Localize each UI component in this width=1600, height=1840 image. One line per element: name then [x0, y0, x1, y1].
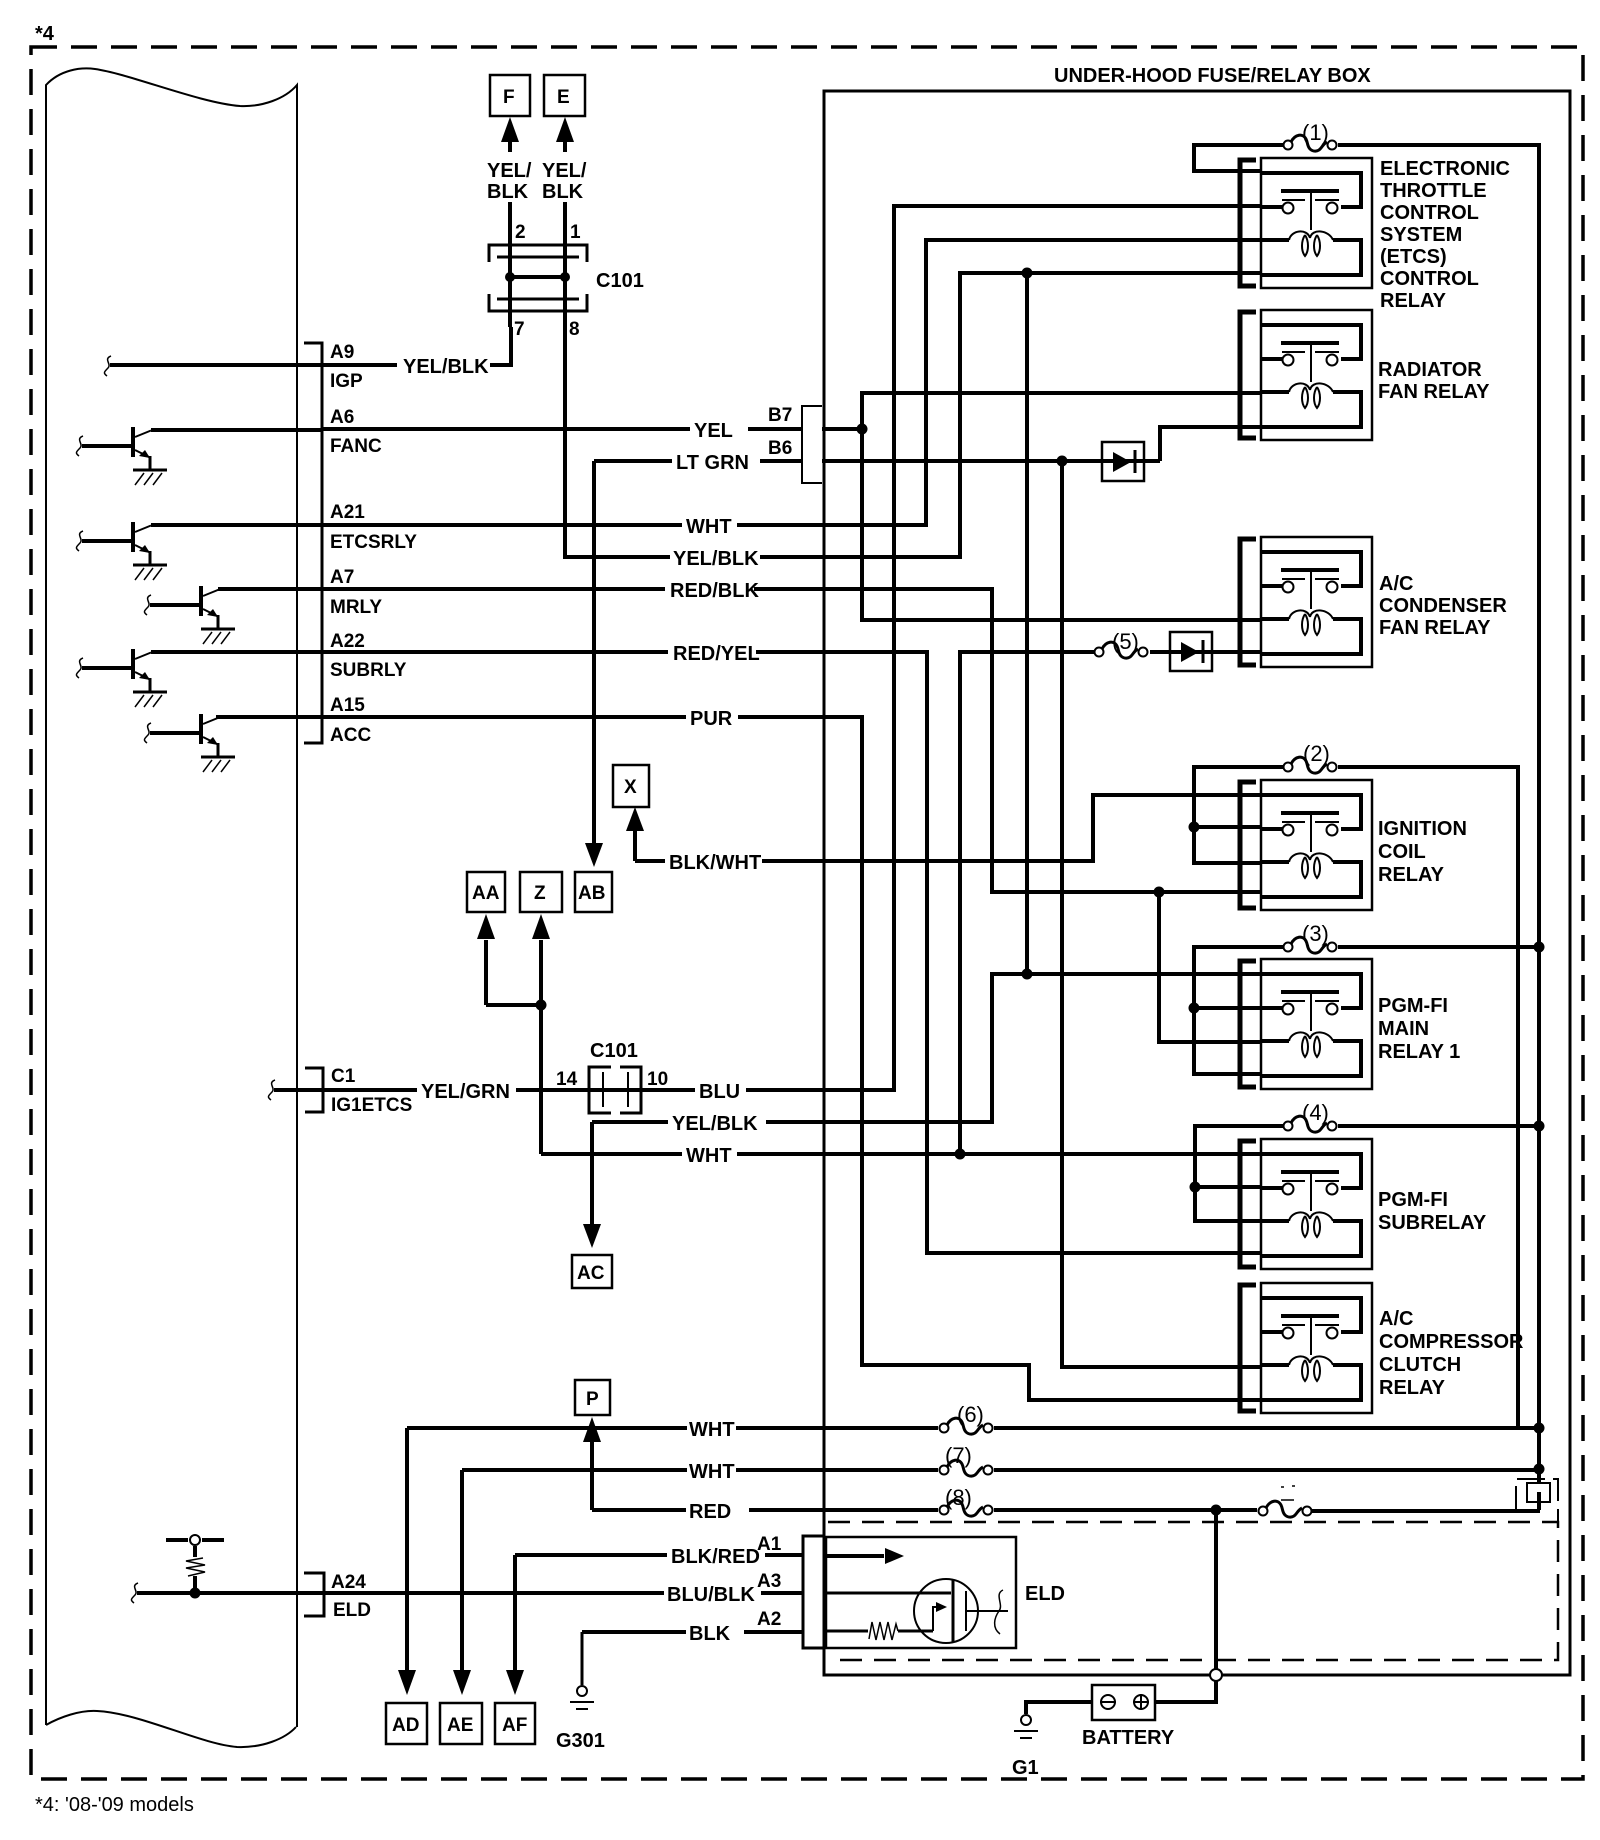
- svg-text:BLU/BLK: BLU/BLK: [667, 1584, 755, 1606]
- svg-text:CONTROL: CONTROL: [1380, 268, 1479, 290]
- fuse F4: [1284, 1116, 1337, 1132]
- wire C1 IG1ETCS YEL/GRN to C101: [274, 1088, 589, 1092]
- wire A3 gate line inside ELD: [824, 1592, 951, 1595]
- svg-text:(2): (2): [1303, 741, 1330, 766]
- connector box E: [544, 75, 585, 116]
- svg-text:MAIN: MAIN: [1378, 1018, 1429, 1040]
- svg-text:BLK: BLK: [689, 1623, 731, 1645]
- connector bracket A1 A3 A2: [803, 1536, 824, 1648]
- svg-text:A3: A3: [757, 1571, 781, 1592]
- svg-text:ELECTRONIC: ELECTRONIC: [1380, 158, 1510, 180]
- connector bracket relay U5: [1240, 961, 1256, 1087]
- svg-text:WHT: WHT: [689, 1419, 735, 1441]
- wire A6 FANC YEL to junction: [151, 429, 862, 430]
- svg-text:SUBRELAY: SUBRELAY: [1378, 1212, 1487, 1234]
- fusible link assembly right: [1537, 1469, 1541, 1510]
- connector bracket relay U3: [1240, 539, 1256, 665]
- squiggle Q1 base: [76, 436, 83, 456]
- svg-text:A7: A7: [330, 567, 354, 588]
- svg-text:AA: AA: [472, 883, 500, 904]
- arrow down to AB connector from LT GRN: [592, 461, 596, 844]
- transistor Q1 FANC driver: [82, 427, 151, 470]
- connector box P: [575, 1380, 610, 1415]
- relay U5 PGM-FI main relay 1 box: [1261, 959, 1372, 1089]
- junction relay U5 top at bus 1027: [1022, 969, 1033, 980]
- svg-text:A24: A24: [331, 1572, 366, 1593]
- wire fuse F1 output to right bus: [1338, 143, 1539, 147]
- svg-text:WHT: WHT: [686, 1145, 732, 1167]
- arrow up to E connector: [563, 130, 567, 152]
- arrow down to AE connector: [460, 1470, 464, 1671]
- ground G301: [570, 1686, 594, 1709]
- ground Q5: [201, 757, 235, 772]
- svg-text:(3): (3): [1302, 921, 1329, 946]
- svg-text:A9: A9: [330, 342, 354, 363]
- svg-text:BLK/WHT: BLK/WHT: [669, 852, 761, 874]
- wire fuse F4 output to right bus: [1338, 1124, 1539, 1128]
- svg-text:ELD: ELD: [333, 1600, 371, 1621]
- svg-text:RED/YEL: RED/YEL: [673, 643, 760, 665]
- svg-text:AF: AF: [502, 1715, 527, 1736]
- svg-text:10: 10: [647, 1069, 668, 1090]
- ECM/PCM torn box (left): [46, 68, 297, 1747]
- svg-text:BLK/RED: BLK/RED: [671, 1546, 760, 1568]
- svg-text:BLK: BLK: [542, 181, 584, 203]
- connector C101 lower: [589, 1067, 641, 1113]
- svg-text:CONDENSER: CONDENSER: [1379, 595, 1507, 617]
- squiggle ELD drain continuation: [995, 1590, 1003, 1634]
- svg-text:C101: C101: [596, 270, 644, 292]
- wire WHT fuse F7 from AE: [462, 1468, 1539, 1472]
- svg-text:C101: C101: [590, 1040, 638, 1062]
- svg-text:CONTROL: CONTROL: [1380, 202, 1479, 224]
- fuse F5: [1095, 642, 1148, 658]
- junction LT GRN at bus 1062: [1057, 456, 1068, 467]
- svg-text:A15: A15: [330, 695, 365, 716]
- fuse F8: [940, 1500, 993, 1516]
- svg-text:BLK: BLK: [487, 181, 529, 203]
- wire BLK A2 from G301: [582, 1630, 803, 1634]
- wire YEL/BLK pin8 down to YEL/BLK net relay U1 bottom: [565, 273, 1261, 557]
- ECM pin bracket A24: [304, 1573, 324, 1616]
- wire fuse F2 output to bus 1518: [1338, 767, 1518, 1428]
- connector bracket B7 B6: [802, 406, 822, 483]
- MOSFET Q6 inside ELD: [914, 1579, 978, 1643]
- squiggle A24 wire end: [131, 1583, 138, 1603]
- transistor Q4 SUBRLY driver: [82, 649, 151, 692]
- svg-text:A21: A21: [330, 502, 365, 523]
- svg-text:PGM-FI: PGM-FI: [1378, 995, 1448, 1017]
- wire A2 inside ELD with resistor R2: [824, 1630, 933, 1633]
- wire RED fuse F8 from P: [592, 1510, 1540, 1511]
- svg-text:PUR: PUR: [690, 708, 733, 730]
- svg-text:RADIATOR: RADIATOR: [1378, 359, 1482, 381]
- wire battery drop through box edge: [1155, 1510, 1216, 1702]
- junction WHT7 right bus: [1534, 1464, 1545, 1475]
- svg-text:YEL/GRN: YEL/GRN: [421, 1081, 510, 1103]
- svg-text:UNDER-HOOD FUSE/RELAY BOX: UNDER-HOOD FUSE/RELAY BOX: [1054, 65, 1371, 87]
- connector box AB: [575, 872, 612, 912]
- svg-text:C1: C1: [331, 1066, 356, 1087]
- svg-text:ETCSRLY: ETCSRLY: [330, 532, 417, 553]
- arrow up to Z connector and down to WHT corner: [539, 940, 543, 1154]
- connector box AE: [440, 1703, 482, 1744]
- fuse F3: [1284, 937, 1337, 953]
- relay U4 ignition coil relay box: [1261, 780, 1372, 910]
- connector box AA: [467, 872, 505, 912]
- wire A21 ETCSRLY WHT to relay U1 coil: [151, 240, 1261, 525]
- transistor Q5 ACC driver: [150, 714, 219, 757]
- wire BLK/WHT to X arrow and relay U4 top: [635, 795, 1261, 861]
- transistor Q2 ETCSRLY driver: [82, 522, 151, 565]
- svg-text:Z: Z: [534, 883, 546, 904]
- wire bus 1159 to relay U5 coil: [1159, 892, 1261, 1042]
- fuse F6: [940, 1418, 993, 1434]
- wire bus 862 YEL net to relay U2 coil and U3 coil: [862, 393, 1261, 620]
- wire fuse F4 feed down to relay U6 coil: [1195, 1126, 1283, 1221]
- connector bracket relay U7: [1240, 1285, 1256, 1411]
- svg-text:COIL: COIL: [1378, 841, 1426, 863]
- svg-text:RELAY: RELAY: [1380, 290, 1447, 312]
- svg-text:G301: G301: [556, 1730, 605, 1752]
- svg-text:FAN RELAY: FAN RELAY: [1379, 617, 1491, 639]
- svg-text:ACC: ACC: [330, 725, 371, 746]
- wire YEL/BLK lower to relay U5 top: [592, 974, 1261, 1122]
- wire battery to G1 ground: [1026, 1702, 1092, 1714]
- svg-text:A/C: A/C: [1379, 1308, 1413, 1330]
- arrow down to AD connector: [405, 1428, 409, 1671]
- svg-text:(5): (5): [1112, 629, 1139, 654]
- svg-text:IGP: IGP: [330, 371, 363, 392]
- svg-text:RED/BLK: RED/BLK: [670, 580, 759, 602]
- wire BLU/BLK A3 ELD from ECM: [137, 1591, 803, 1595]
- svg-text:*4: *4: [35, 23, 55, 45]
- svg-text:LT GRN: LT GRN: [676, 452, 749, 474]
- svg-text:A6: A6: [330, 407, 354, 428]
- svg-text:A22: A22: [330, 631, 365, 652]
- svg-text:AE: AE: [447, 1715, 473, 1736]
- connector box AC: [572, 1255, 612, 1288]
- relay U2 radiator fan relay box: [1261, 310, 1372, 440]
- fuse F2: [1284, 757, 1337, 773]
- svg-text:A2: A2: [757, 1609, 781, 1630]
- junction YEL/BLK at bus 1027: [1022, 268, 1033, 279]
- wire fuse F5 to diode D2 to relay U3 bottom: [1150, 650, 1261, 654]
- wire fuse F5 feed from WHT net bus 960: [960, 652, 1094, 1154]
- transistor Q3 MRLY driver: [150, 586, 219, 629]
- wire fuse F3 output to right bus: [1338, 945, 1539, 949]
- connector box X: [613, 765, 649, 807]
- wire C101 pin2 to pin7 vertical F branch: [508, 202, 512, 327]
- junction relay U4 contact: [1189, 822, 1200, 833]
- svg-text:8: 8: [569, 319, 580, 340]
- ECM pin bracket C1: [305, 1068, 323, 1112]
- battery BAT1: [1092, 1685, 1155, 1720]
- svg-text:7: 7: [514, 319, 525, 340]
- svg-text:A1: A1: [757, 1534, 782, 1555]
- svg-text:RELAY 1: RELAY 1: [1378, 1041, 1460, 1063]
- connector C101 upper: [489, 245, 587, 311]
- svg-text:PGM-FI: PGM-FI: [1378, 1189, 1448, 1211]
- wire relay U5 contact stub: [1194, 1006, 1261, 1010]
- inner dashed sub-box around ELD: [828, 1522, 1558, 1660]
- svg-text:YEL/: YEL/: [542, 160, 587, 182]
- svg-text:YEL/BLK: YEL/BLK: [403, 356, 489, 378]
- squiggle Q5 base: [144, 723, 151, 743]
- squiggle C1 wire end: [268, 1080, 275, 1100]
- svg-text:YEL/BLK: YEL/BLK: [672, 1113, 758, 1135]
- ground Q2: [133, 565, 167, 580]
- relay U3 A/C condenser fan relay box: [1261, 537, 1372, 667]
- svg-text:SUBRLY: SUBRLY: [330, 660, 407, 681]
- ground G1: [1014, 1715, 1038, 1738]
- ground Q4: [133, 692, 167, 707]
- resistor R1 pull-up on ELD line: [193, 1546, 197, 1590]
- wire C101 pin1 to pin8 vertical E branch: [563, 202, 567, 277]
- connector box Z: [520, 872, 562, 912]
- arrow up to AA connector: [484, 940, 488, 1005]
- connector box AD: [386, 1703, 427, 1744]
- open junction on box bottom edge: [1210, 1669, 1222, 1681]
- svg-text:SYSTEM: SYSTEM: [1380, 224, 1462, 246]
- svg-text:WHT: WHT: [689, 1461, 735, 1483]
- wire WHT fuse F6 from AD: [407, 1426, 1539, 1430]
- ELD assembly box: [826, 1537, 1016, 1648]
- svg-text:B6: B6: [768, 438, 792, 459]
- svg-text:RED: RED: [689, 1501, 731, 1523]
- squiggle A9 wire end: [104, 356, 111, 376]
- ground Q3: [201, 629, 235, 644]
- svg-text:(ETCS): (ETCS): [1380, 246, 1447, 268]
- svg-text:14: 14: [556, 1069, 578, 1090]
- resistor R2 inside ELD: [869, 1622, 898, 1640]
- junction ignition relay bottom at bus 1159: [1154, 887, 1165, 898]
- svg-text:E: E: [557, 87, 570, 108]
- junction fuse F4 right bus: [1534, 1121, 1545, 1132]
- wire AA Z tie: [486, 1003, 541, 1007]
- connector box F: [490, 75, 530, 116]
- svg-text:YEL/BLK: YEL/BLK: [673, 548, 759, 570]
- svg-text:BATTERY: BATTERY: [1082, 1727, 1175, 1749]
- arrow down to AF connector: [513, 1555, 517, 1671]
- junction C101 pin7: [505, 272, 515, 282]
- arrow up to F connector: [508, 130, 512, 152]
- svg-text:*4: '08-'09 models: *4: '08-'09 models: [35, 1794, 194, 1816]
- relay U1 ETCS control relay box: [1261, 158, 1372, 288]
- wire relay U4 contact stub: [1194, 825, 1261, 829]
- svg-text:CLUTCH: CLUTCH: [1379, 1354, 1461, 1376]
- wire bus 1062 LT GRN net to relay U7 coil: [1062, 461, 1261, 1367]
- svg-text:IG1ETCS: IG1ETCS: [331, 1095, 412, 1116]
- svg-text:AB: AB: [578, 883, 605, 904]
- svg-text:FANC: FANC: [330, 436, 382, 457]
- relay U6 PGM-FI subrelay box: [1261, 1139, 1372, 1269]
- ECM pin bracket A9-A15: [304, 343, 322, 743]
- wire C101 internal tie: [510, 275, 565, 279]
- svg-text:X: X: [624, 777, 637, 798]
- diode D1: [1102, 442, 1144, 481]
- svg-text:G1: G1: [1012, 1757, 1039, 1779]
- junction ELD resistor: [190, 1588, 201, 1599]
- wire fuse F2 feed down to relay U4 coil: [1194, 767, 1283, 863]
- fuse F7: [940, 1460, 993, 1476]
- svg-text:YEL: YEL: [694, 420, 733, 442]
- svg-text:(6): (6): [957, 1402, 984, 1427]
- svg-text:B7: B7: [768, 405, 792, 426]
- junction relay U6 contact: [1190, 1182, 1201, 1193]
- fuse F1: [1284, 135, 1337, 151]
- svg-text:1: 1: [570, 222, 581, 243]
- arrow up to P connector from RED: [590, 1442, 594, 1510]
- svg-text:COMPRESSOR: COMPRESSOR: [1379, 1331, 1524, 1353]
- wire relay U6 contact stub: [1195, 1185, 1261, 1189]
- wire G301 drop: [581, 1632, 584, 1685]
- squiggle Q2 base: [76, 531, 83, 551]
- svg-text:ELD: ELD: [1025, 1583, 1065, 1605]
- svg-text:(4): (4): [1302, 1100, 1329, 1125]
- connector bracket relay U1: [1240, 160, 1256, 286]
- svg-text:RELAY: RELAY: [1378, 864, 1445, 886]
- connector box AF: [495, 1703, 535, 1744]
- svg-text:WHT: WHT: [686, 516, 732, 538]
- wire fuse F3 feed down to relay U5 bottom: [1194, 947, 1283, 1074]
- arrow up to X connector: [633, 826, 637, 861]
- wire bus 1027 MRLY net: [1025, 273, 1029, 974]
- connector bracket relay U2: [1240, 312, 1256, 438]
- connector bracket relay U4: [1240, 782, 1256, 908]
- svg-text:MRLY: MRLY: [330, 597, 382, 618]
- junction WHT at bus 960: [955, 1149, 966, 1160]
- svg-text:FAN RELAY: FAN RELAY: [1378, 381, 1490, 403]
- arrow down to AC connector from YEL/BLK: [590, 1122, 594, 1225]
- svg-text:(1): (1): [1302, 120, 1329, 145]
- svg-text:THROTTLE: THROTTLE: [1380, 180, 1487, 202]
- wire LT GRN B6 to diode D1 and AB arrow: [594, 459, 1160, 463]
- junction WHT6 right bus: [1534, 1423, 1545, 1434]
- junction AA Z: [536, 1000, 547, 1011]
- ground Q1: [133, 470, 167, 485]
- fuse F9 unlabeled on RED wire: [1259, 1501, 1312, 1517]
- svg-text:YEL/: YEL/: [487, 160, 532, 182]
- wire A7 MRLY RED/BLK to bus 992: [218, 589, 1261, 892]
- wire BLK/RED A1 from AF corner: [515, 1553, 803, 1557]
- junction YEL B7 at bus 862: [857, 424, 868, 435]
- wire fuse F1 feed from relay U1 top: [1194, 145, 1283, 171]
- svg-text:P: P: [586, 1389, 599, 1410]
- wire A1 arrow inside ELD: [824, 1554, 884, 1558]
- svg-text:AC: AC: [577, 1263, 605, 1284]
- wire diode D1 output to relay U2 bottom: [1160, 427, 1261, 461]
- svg-text:AD: AD: [392, 1715, 419, 1736]
- junction C101 pin8: [560, 272, 570, 282]
- squiggle Q4 base: [76, 658, 83, 678]
- wire BLU from C101 to relay U1 contact: [641, 206, 1261, 1090]
- junction relay U5 contact: [1189, 1003, 1200, 1014]
- svg-text:BLU: BLU: [699, 1081, 740, 1103]
- junction fuse F3 right bus: [1534, 942, 1545, 953]
- wire A9 IGP YEL/BLK from ECM to C101 pin 7: [110, 327, 511, 365]
- squiggle Q3 base: [144, 595, 151, 615]
- svg-text:F: F: [503, 87, 515, 108]
- connector bracket relay U6: [1240, 1141, 1256, 1267]
- svg-text:RELAY: RELAY: [1379, 1377, 1446, 1399]
- under-hood fuse/relay box (solid): [824, 91, 1570, 1675]
- svg-text:(8): (8): [945, 1485, 972, 1510]
- svg-text:(7): (7): [945, 1443, 972, 1468]
- wire WHT lower to relay U6 top: [541, 1152, 1261, 1156]
- relay U7 A/C compressor clutch relay box: [1261, 1283, 1372, 1413]
- wire A15 ACC PUR to relay U7 bottom: [216, 717, 1261, 1400]
- junction RED battery drop: [1211, 1505, 1222, 1516]
- svg-text:A/C: A/C: [1379, 573, 1413, 595]
- svg-text:IGNITION: IGNITION: [1378, 818, 1467, 840]
- svg-text:2: 2: [515, 222, 526, 243]
- wire right power bus x=1539: [1537, 143, 1541, 1483]
- wire A22 SUBRLY RED/YEL to relay U6 bottom: [151, 652, 1261, 1253]
- diode D2: [1170, 632, 1212, 671]
